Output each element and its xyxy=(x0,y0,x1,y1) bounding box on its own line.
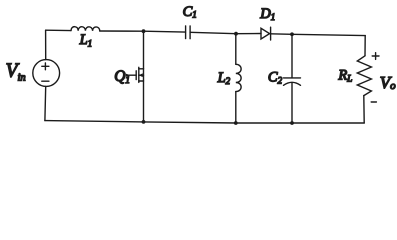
node Q1 source junction xyxy=(142,120,146,124)
wire Vin top lead xyxy=(45,30,47,59)
capacitor C1 xyxy=(186,26,191,39)
svg-text:C1: C1 xyxy=(183,4,197,20)
node Q1 drain junction xyxy=(142,29,146,33)
wire right vertical top xyxy=(364,36,366,56)
capacitor C2 xyxy=(284,34,301,123)
source Vin xyxy=(33,60,60,87)
node L2 top junction xyxy=(234,32,238,36)
svg-text:L2: L2 xyxy=(217,70,231,86)
node C2 bottom junction xyxy=(290,121,294,125)
svg-text:Q1: Q1 xyxy=(114,68,130,85)
svg-text:D1: D1 xyxy=(259,6,275,22)
svg-text:Vo: Vo xyxy=(380,73,396,92)
wire D1 to top-right corner xyxy=(271,34,366,36)
wire Vin bottom lead xyxy=(44,86,47,120)
svg-text:L1: L1 xyxy=(79,32,93,48)
wire C1 to D1 xyxy=(190,32,261,33)
svg-text:RL: RL xyxy=(337,68,352,84)
svg-text:C2: C2 xyxy=(268,69,283,85)
inductor L2 xyxy=(236,34,241,123)
inductor L1 xyxy=(71,27,100,31)
plus output xyxy=(372,53,379,60)
resistor RL xyxy=(357,56,371,96)
diode D1 xyxy=(261,27,271,40)
node L2 bottom junction xyxy=(234,121,238,125)
wire right vertical bottom xyxy=(363,96,365,123)
wire L1 to C1 xyxy=(100,31,186,32)
wire top segment Vin corner to L1 xyxy=(46,29,71,31)
transistor Q1 xyxy=(126,31,143,122)
svg-text:Vin: Vin xyxy=(6,60,26,83)
wire bottom xyxy=(45,121,364,123)
minus output xyxy=(371,101,376,103)
node C2 top junction xyxy=(290,32,294,36)
